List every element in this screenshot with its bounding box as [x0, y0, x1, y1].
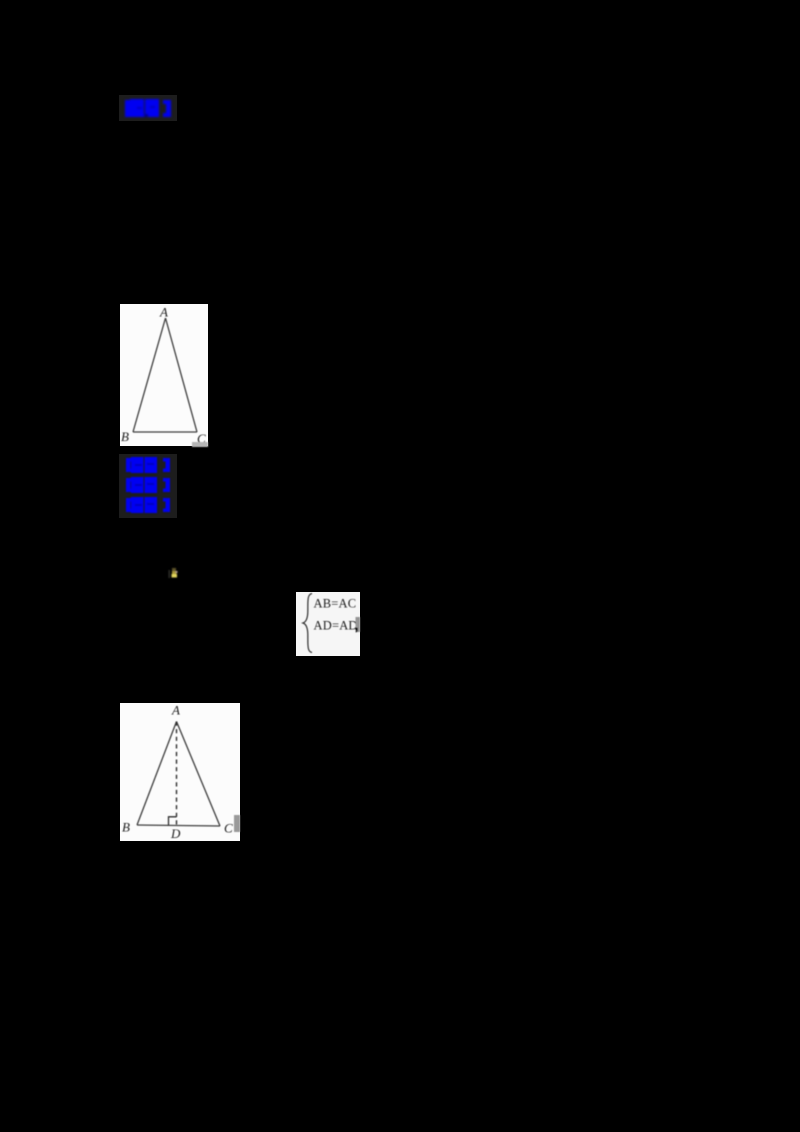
node gray artifact right [234, 815, 240, 832]
node keypoint-label gray halo box [119, 454, 177, 518]
node answer-label gray halo box [119, 95, 177, 121]
svg-text:B: B [122, 820, 130, 835]
wire side AC [166, 318, 198, 432]
wire altitude AD dashed [176, 722, 178, 826]
wire side AB [133, 318, 166, 432]
node yellow highlight mark [165, 563, 185, 583]
image 2: equation system box [296, 592, 360, 656]
brace { [303, 594, 312, 653]
node right-angle mark at D [169, 817, 177, 825]
node gray corner artifact [192, 442, 208, 447]
svg-text:AD=AD: AD=AD [314, 619, 358, 633]
svg-text:,: , [355, 617, 359, 633]
svg-text:C: C [224, 821, 233, 836]
wire base BC [133, 431, 197, 433]
image 1: isosceles triangle ABC figure [120, 304, 208, 446]
node keypoint-label blue blob 【考点】【分析】【解答】 [119, 454, 177, 518]
node answer-label blue blob 【答案】 [119, 95, 177, 121]
image 3: triangle ABC with altitude AD figure [120, 703, 240, 841]
node gray artifact right [356, 617, 361, 632]
svg-text:AB=AC: AB=AC [314, 597, 357, 611]
svg-text:A: A [159, 305, 168, 320]
wire side AC [177, 722, 221, 827]
svg-text:B: B [121, 429, 129, 444]
svg-text:D: D [170, 826, 181, 841]
wire side AB [137, 722, 177, 826]
wire base BC [137, 825, 220, 826]
svg-text:A: A [171, 703, 180, 718]
